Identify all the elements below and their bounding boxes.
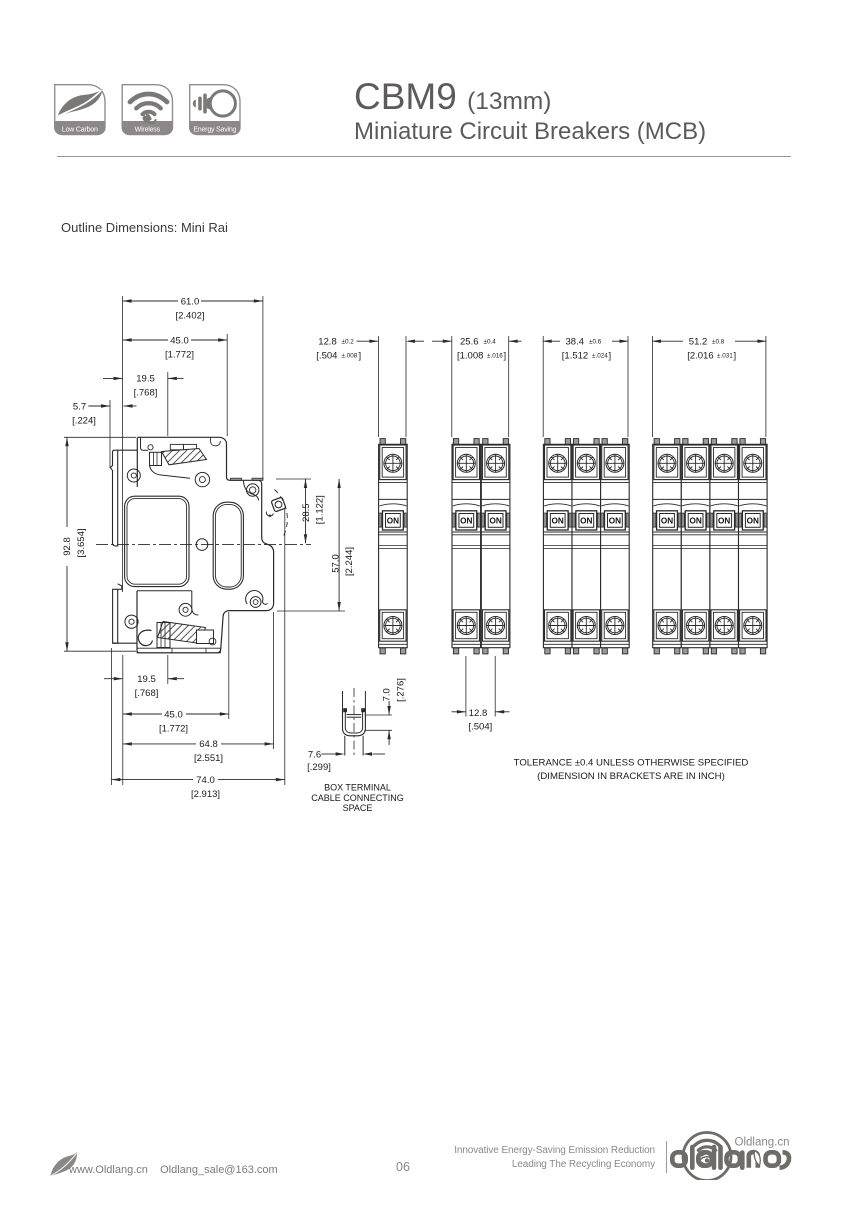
- side view: center hole: [196, 539, 208, 551]
- header rule: [57, 156, 791, 157]
- svg-text:[3.654]: [3.654]: [76, 528, 87, 557]
- svg-text:45.0: 45.0: [164, 709, 183, 720]
- svg-text:57.0: 57.0: [330, 554, 341, 573]
- svg-text:]: ]: [359, 350, 362, 361]
- dimension 28.5 (vertical): [276, 478, 311, 480]
- svg-text:Oldlang.cn: Oldlang.cn: [735, 1137, 790, 1149]
- 1-pole breaker front view: [379, 439, 408, 654]
- page number: [396, 1160, 410, 1174]
- badge: Wireless: [122, 85, 172, 135]
- footer left text: [69, 1164, 278, 1176]
- 4-pole breaker front view: [653, 439, 682, 654]
- svg-text:±0.2: ±0.2: [342, 338, 355, 345]
- extension lines (top dims): [122, 296, 124, 592]
- svg-text:±.016: ±.016: [487, 352, 503, 359]
- side view: dashed toggle arc: [275, 490, 288, 537]
- footer left leaf: [49, 1152, 83, 1179]
- dimension 12.8 (1-pole): [357, 340, 378, 342]
- svg-text:BOX TERMINAL: BOX TERMINAL: [324, 783, 391, 793]
- svg-text:19.5: 19.5: [137, 674, 156, 685]
- side view: left pill recess: [125, 496, 189, 586]
- svg-text:7.0: 7.0: [382, 688, 393, 701]
- svg-text:[1.772]: [1.772]: [165, 350, 194, 361]
- svg-text:[2.402]: [2.402]: [175, 311, 204, 322]
- dimension 74.0: [111, 779, 193, 781]
- side view: latch square: [271, 497, 286, 512]
- svg-text:12.8: 12.8: [318, 336, 337, 347]
- badge: Low Carbon: [55, 85, 105, 135]
- svg-text:[2.016: [2.016: [687, 350, 713, 361]
- side view: center line: [96, 544, 311, 546]
- svg-text:±.008: ±.008: [342, 352, 358, 359]
- side view: bottom right screw boss: [246, 590, 268, 604]
- side view: top terminal assembly: [141, 437, 149, 450]
- side view: ledge detail tabs: [231, 478, 242, 480]
- section label: [61, 220, 228, 235]
- svg-text:±.024: ±.024: [592, 352, 608, 359]
- svg-text:±0.8: ±0.8: [712, 338, 725, 345]
- dimension 7.0: [365, 714, 393, 716]
- svg-text:(DIMENSION IN BRACKETS ARE IN: (DIMENSION IN BRACKETS ARE IN INCH): [537, 771, 725, 782]
- product title: [354, 80, 706, 144]
- svg-text:45.0: 45.0: [170, 336, 189, 347]
- dimension 19.5 (bottom): [104, 678, 123, 680]
- side view: lower mid boundary: [137, 590, 192, 592]
- logo circle: [683, 1133, 731, 1181]
- svg-text:[1.008: [1.008: [457, 350, 483, 361]
- header badge icons: [54, 84, 246, 137]
- svg-text:12.8: 12.8: [469, 708, 488, 719]
- footer separator: [666, 1141, 667, 1173]
- svg-text:7.6: 7.6: [308, 749, 321, 760]
- dimension 38.4 (3-pole): [543, 340, 560, 342]
- svg-text:25.6: 25.6: [460, 336, 479, 347]
- side view: screws: [127, 469, 140, 482]
- footer right slogan: [420, 1144, 655, 1172]
- dimension 61.0: [123, 300, 178, 302]
- svg-text:28.5: 28.5: [301, 503, 312, 522]
- dimension 5.7: [88, 405, 110, 407]
- badge: Energy Saving: [190, 85, 240, 135]
- svg-text:19.5: 19.5: [136, 374, 155, 385]
- svg-text:±0.4: ±0.4: [484, 338, 497, 345]
- dimension 19.5 (top): [103, 377, 123, 379]
- logo wifi arcs: [695, 1140, 720, 1145]
- extension lines (bottom dims): [110, 648, 112, 785]
- svg-text:5.7: 5.7: [73, 401, 86, 412]
- footer logo: [668, 1128, 800, 1180]
- logo eye: [700, 1157, 715, 1164]
- svg-text:]: ]: [609, 350, 612, 361]
- box terminal detail: [342, 691, 344, 709]
- 3-pole breaker front view: [543, 439, 572, 654]
- side view: din rail flange lower: [113, 584, 122, 643]
- dimension 51.2 (4-pole): [652, 340, 683, 342]
- side view: left wall: [136, 437, 138, 487]
- svg-text:]: ]: [734, 350, 737, 361]
- svg-text:±.031: ±.031: [717, 352, 733, 359]
- svg-text:[.224]: [.224]: [72, 415, 96, 426]
- side view: screw pod on ledge: [244, 480, 259, 500]
- svg-text:61.0: 61.0: [181, 297, 200, 308]
- dimension 45.0 (bottom): [123, 713, 162, 715]
- svg-text:74.0: 74.0: [196, 775, 215, 786]
- svg-text:TOLERANCE ±0.4 UNLESS OTHERWIS: TOLERANCE ±0.4 UNLESS OTHERWISE SPECIFIE…: [514, 758, 749, 769]
- dimension 25.6 (2-pole): [432, 340, 452, 342]
- side view: outline: [137, 437, 274, 653]
- svg-text:51.2: 51.2: [689, 336, 708, 347]
- 2-pole breaker front view: [452, 439, 481, 654]
- svg-text:]: ]: [504, 350, 507, 361]
- svg-text:[.768]: [.768]: [135, 688, 159, 699]
- logo letters: [672, 1147, 789, 1168]
- svg-text:[1.772]: [1.772]: [159, 723, 188, 734]
- side view: right pill recess: [213, 502, 243, 589]
- dimension 12.8 pole pitch (below 2-pole): [465, 656, 467, 717]
- dimension 57.0 (vertical): [277, 610, 345, 612]
- svg-text:[2.244]: [2.244]: [344, 547, 355, 576]
- svg-text:CABLE CONNECTING: CABLE CONNECTING: [311, 793, 404, 803]
- dimension 64.8: [123, 743, 196, 745]
- svg-text:[.504]: [.504]: [469, 722, 493, 733]
- svg-text:[1.122]: [1.122]: [314, 495, 325, 524]
- svg-text:±0.6: ±0.6: [589, 338, 602, 345]
- svg-text:SPACE: SPACE: [343, 803, 373, 813]
- svg-text:[.299]: [.299]: [307, 762, 331, 773]
- svg-text:[1.512: [1.512: [562, 350, 588, 361]
- svg-text:38.4: 38.4: [566, 336, 585, 347]
- logo leaf accent: [754, 1151, 760, 1166]
- dimension 7.6: [321, 753, 335, 755]
- svg-text:[.768]: [.768]: [134, 388, 158, 399]
- svg-text:[.504: [.504: [316, 350, 337, 361]
- svg-text:[2.913]: [2.913]: [191, 789, 220, 800]
- svg-text:92.8: 92.8: [62, 537, 73, 556]
- side view: bottom terminal assembly: [158, 622, 206, 644]
- front view extension lines: [377, 336, 379, 437]
- side view: din rail flange upper: [110, 450, 137, 546]
- svg-text:64.8: 64.8: [199, 739, 218, 750]
- svg-text:[2.551]: [2.551]: [194, 753, 223, 764]
- dimension 45.0: [123, 339, 168, 341]
- svg-text:[.276]: [.276]: [396, 678, 407, 702]
- dimension 92.8 (vertical): [64, 436, 136, 438]
